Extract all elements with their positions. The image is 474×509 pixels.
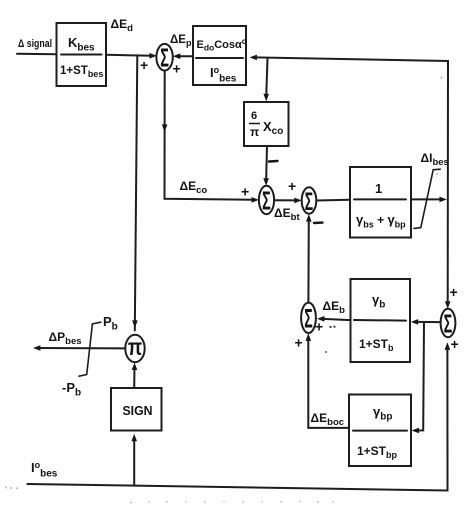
- wire: block rbp output left and up into S5 bottom (DeltaEboc): [308, 337, 349, 428]
- block K_bes / (1+ST_bes): [57, 23, 107, 86]
- svg-text:+: +: [288, 178, 296, 194]
- wire: right vertical feedback line top: [447, 61, 449, 305]
- sign minus at S2 top: [269, 160, 278, 163]
- wire: S1 output down and right to S2 (DeltaEco): [165, 71, 256, 200]
- scan noise dots: [5, 77, 443, 504]
- multiplier pi: [125, 335, 144, 362]
- wire: bottom line and right vertical up into S4 bottom: [27, 346, 447, 491]
- wire: SIGN output up into pi bottom: [133, 366, 135, 388]
- svg-text:+: +: [315, 319, 323, 335]
- wire: block output through limiter to right vertical line: [411, 198, 443, 200]
- sign minus at S3 bottom: [314, 221, 323, 224]
- wire: S2 output to S3 (DeltaEbt): [274, 199, 298, 201]
- wire arrowhead into S1 left: [149, 53, 156, 59]
- svg-text:+: +: [241, 184, 249, 200]
- wire: Kbes output to summer S1: [106, 54, 153, 57]
- wire: block rb output into S5 right (DeltaEb): [320, 319, 350, 320]
- svg-text:π: π: [250, 125, 259, 139]
- summer S2: [259, 186, 274, 214]
- svg-text:Δ signal: Δ signal: [18, 38, 52, 50]
- svg-text:Σ: Σ: [262, 187, 271, 215]
- svg-text:Σ: Σ: [160, 44, 169, 72]
- wire: S3 output to block 1/(rbs+rbp): [316, 199, 350, 202]
- svg-text:1: 1: [375, 181, 382, 196]
- svg-text:+: +: [140, 57, 148, 73]
- block rbp/(1+STbp): [349, 395, 411, 467]
- limiter symbol Pb: [79, 322, 101, 376]
- summer S1: [156, 44, 172, 71]
- wire: S5 output up into S3 bottom: [307, 218, 309, 303]
- wire: drop from feedback line to Xco box: [266, 58, 267, 98]
- svg-text:π: π: [128, 335, 142, 360]
- wire: S4 output left into block rb: [414, 321, 441, 323]
- wire arrowhead down into multiplier pi top: [132, 320, 138, 328]
- wire: feedback top line from right corner to EdoCos box: [253, 57, 448, 61]
- block SIGN: [111, 388, 162, 431]
- node: junction DeltaEd branch: [135, 55, 138, 330]
- block 6/pi Xco: [244, 102, 289, 146]
- svg-text:Σ: Σ: [444, 310, 453, 338]
- block EdoCos / I_bes: [193, 26, 246, 85]
- wire: EdoCos output to S1 right: [176, 55, 193, 57]
- svg-text:6: 6: [251, 110, 257, 122]
- summer S3: [302, 187, 317, 214]
- wire: pi output left through limiter (DeltaPbes): [37, 347, 126, 349]
- wire: Xco output down into S2 top: [265, 146, 268, 182]
- svg-text:+: +: [450, 284, 458, 300]
- wire: bottom line branch up into SIGN bottom: [133, 438, 135, 486]
- svg-text:+: +: [173, 61, 181, 77]
- limiter symbol DeltaIbes: [414, 169, 440, 228]
- summer S5: [301, 303, 316, 333]
- block 1/(rbs+rbp): [350, 167, 411, 238]
- svg-text:SIGN: SIGN: [123, 403, 153, 418]
- svg-text:Σ: Σ: [304, 304, 312, 334]
- summer S4: [441, 309, 456, 337]
- wire: branch down from S4 output to block rbp: [415, 322, 424, 431]
- svg-text:+: +: [295, 335, 303, 351]
- wire: delta signal input: [17, 53, 57, 56]
- svg-text:Σ: Σ: [305, 189, 313, 216]
- block rb/(1+STb): [351, 279, 411, 362]
